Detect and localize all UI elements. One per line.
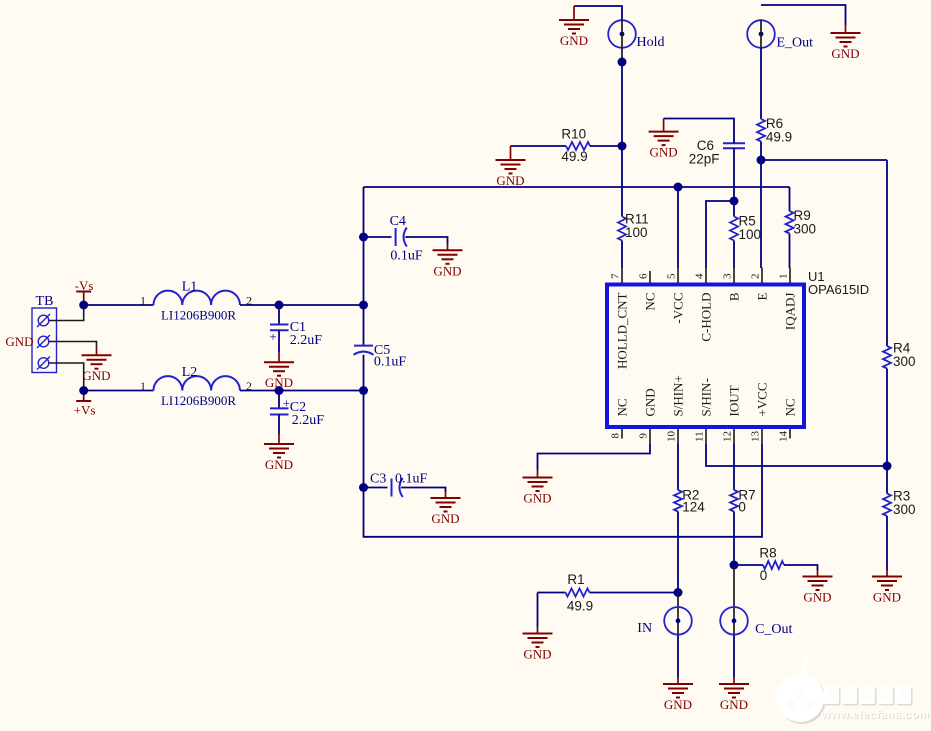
wire R1 ground stub <box>537 593 539 628</box>
pin 7 (HOLLD_CNT) <box>610 268 630 370</box>
ground (R10) <box>496 146 526 188</box>
ground (C_Out) <box>719 678 749 712</box>
wire HOLD_CNT down <box>621 62 623 217</box>
svg-text:49.9: 49.9 <box>567 599 593 614</box>
ground (R1) <box>523 627 553 662</box>
node C_Out junction <box>730 561 739 570</box>
ground (R8) <box>803 570 833 605</box>
wire R5 to pin3 <box>733 241 735 269</box>
svg-text:HOLLD_CNT: HOLLD_CNT <box>614 292 629 369</box>
svg-text:L1: L1 <box>182 280 198 295</box>
svg-text:GND: GND <box>664 697 692 712</box>
node C3 junction <box>359 483 368 492</box>
wire pin5 drop <box>677 187 679 268</box>
svg-text:10: 10 <box>666 431 678 443</box>
resistor R8 wire left <box>734 564 763 566</box>
node right rail junction <box>883 462 892 471</box>
svg-text:-VCC: -VCC <box>670 293 685 324</box>
svg-text:GND: GND <box>433 263 461 278</box>
svg-text:2.2uF: 2.2uF <box>292 413 325 428</box>
wire R6 to pin2 <box>760 142 762 269</box>
svg-text:NC: NC <box>642 293 657 311</box>
svg-text:0.1uF: 0.1uF <box>390 249 423 264</box>
connector E_Out <box>747 20 775 48</box>
svg-text:49.9: 49.9 <box>766 130 792 145</box>
node -VCC/pin5 <box>674 183 683 192</box>
wire R1 right <box>590 592 679 594</box>
svg-text:GND: GND <box>523 491 551 506</box>
wire C3 left <box>364 487 388 489</box>
svg-text:GND: GND <box>803 590 831 605</box>
svg-text:0.1uF: 0.1uF <box>395 472 428 487</box>
wire C2 top <box>278 391 280 409</box>
wire R9 to pin1 <box>789 234 791 269</box>
wire node to pin4 <box>706 201 734 268</box>
pin 8 (NC) <box>610 398 630 438</box>
resistor R9 body <box>786 211 794 234</box>
wire L1 to rail <box>240 304 364 306</box>
svg-text:GND: GND <box>873 590 901 605</box>
capacitor C5 <box>354 346 374 355</box>
svg-text:GND: GND <box>265 457 293 472</box>
wire E_Out-to-GND top <box>761 5 846 25</box>
wire E_Out vertical <box>760 20 762 48</box>
inductor L1 <box>154 291 240 305</box>
svg-text:GND: GND <box>82 368 110 383</box>
wire Hold-to-GND top <box>574 6 622 20</box>
svg-text:1: 1 <box>140 379 146 393</box>
wire to R9 <box>789 187 791 211</box>
svg-text:S/HIN+: S/HIN+ <box>670 375 685 416</box>
pin 2 (E) <box>750 268 770 301</box>
node +Vs junction <box>79 386 88 395</box>
svg-text:3: 3 <box>722 273 734 279</box>
connector C_Out <box>720 607 748 635</box>
wire C6 bottom <box>733 148 735 201</box>
wire L2 to rail <box>240 390 364 392</box>
wire left rail lower <box>364 355 763 537</box>
wire +Vs to L2 <box>84 390 154 392</box>
svg-text:GND: GND <box>496 173 524 188</box>
wire TB pin3 <box>49 363 84 391</box>
svg-text:22pF: 22pF <box>689 152 720 167</box>
inductor L2 <box>154 376 240 390</box>
wire pin12 to R7 <box>733 444 735 490</box>
node R10/Hold junction <box>618 142 627 151</box>
node -Vs junction <box>79 301 88 310</box>
power port -Vs <box>75 278 94 305</box>
svg-text:0: 0 <box>760 568 768 583</box>
wire R7 to C_Out node <box>733 512 735 566</box>
pin 3 (B) <box>722 268 742 302</box>
pin 5 (-VCC) <box>666 268 686 324</box>
connector IN <box>664 607 692 635</box>
svg-text:B: B <box>726 292 741 301</box>
svg-text:100: 100 <box>739 227 762 242</box>
svg-text:NC: NC <box>614 398 629 416</box>
svg-text:GND: GND <box>720 697 748 712</box>
svg-text:L2: L2 <box>182 365 198 380</box>
pin 14 (NC) <box>778 398 798 442</box>
svg-text:+Vs: +Vs <box>74 403 96 418</box>
wire C4 right <box>405 237 447 244</box>
svg-text:R8: R8 <box>759 546 776 561</box>
wire R4 to node <box>886 369 888 467</box>
wire node to R5 <box>733 201 735 217</box>
svg-text:9: 9 <box>638 433 650 439</box>
svg-text:12: 12 <box>722 431 734 442</box>
wire C6 top <box>664 119 734 144</box>
resistor R5 body <box>730 217 738 241</box>
svg-text:C4: C4 <box>390 214 406 229</box>
svg-text:TB: TB <box>36 294 54 309</box>
pin 1 (IQADJ) <box>778 268 798 331</box>
svg-text:GND: GND <box>5 334 33 349</box>
connector Hold <box>608 20 636 48</box>
pin 13 (+VCC) <box>750 382 770 444</box>
svg-text:C3: C3 <box>370 472 386 487</box>
ground (C4) <box>433 244 463 278</box>
svg-text:GND: GND <box>523 647 551 662</box>
svg-text:124: 124 <box>682 500 705 515</box>
ground (C2) <box>264 434 294 472</box>
wire pin10 to R2 <box>677 444 679 490</box>
svg-text:NC: NC <box>782 398 797 416</box>
svg-text:Hold: Hold <box>637 35 665 50</box>
node C2 junction <box>275 386 284 395</box>
wire left rail upper <box>363 187 365 346</box>
svg-text:GND: GND <box>431 511 459 526</box>
svg-text:0: 0 <box>738 500 746 515</box>
wire Hold vertical <box>621 20 623 62</box>
svg-text:300: 300 <box>893 354 916 369</box>
svg-text:-Vs: -Vs <box>75 278 94 293</box>
resistor R2 body <box>674 490 682 512</box>
wire R3 to ground <box>886 516 888 570</box>
node E junction <box>757 156 766 165</box>
svg-text:13: 13 <box>750 431 762 443</box>
svg-text:300: 300 <box>893 502 916 517</box>
node L2 junction <box>359 386 368 395</box>
svg-text:11: 11 <box>694 431 706 442</box>
svg-text:www.elecfans.com: www.elecfans.com <box>821 709 930 721</box>
wire C1 top <box>278 305 280 325</box>
ground (C3) <box>431 492 461 526</box>
wire R11 to pin7 <box>621 241 623 269</box>
pin 10 (S/HIN+) <box>666 375 686 444</box>
resistor R3 body <box>883 494 891 517</box>
ground (E_Out) <box>831 25 861 61</box>
power port +Vs <box>74 391 96 418</box>
svg-text:R1: R1 <box>567 572 584 587</box>
capacitor C2 <box>270 408 289 414</box>
svg-text:GND: GND <box>831 46 859 61</box>
svg-text:C-HOLD: C-HOLD <box>698 293 713 342</box>
pin 9 (GND) <box>638 388 658 444</box>
pin 11 (S/HIN-) <box>694 378 714 444</box>
wire C1 bottom <box>278 330 280 352</box>
node C-HOLD junction <box>730 197 739 206</box>
wire -Vs to L1 <box>84 304 154 306</box>
wire TB pin2 <box>49 342 97 349</box>
ground (R3) <box>872 570 902 605</box>
svg-text:LI1206B900R: LI1206B900R <box>161 393 236 408</box>
svg-text:1: 1 <box>778 274 790 280</box>
wire E to right rail <box>761 159 887 161</box>
svg-text:IOUT: IOUT <box>726 385 741 416</box>
wire -VCC bus <box>364 186 790 188</box>
node Hold junction <box>618 58 627 67</box>
svg-text:LI1206B900R: LI1206B900R <box>161 308 236 323</box>
wire pin9 to ground <box>538 444 651 470</box>
svg-text:GND: GND <box>642 388 657 416</box>
wire IN to ground <box>677 635 679 678</box>
wire pin11 to right rail <box>706 444 887 466</box>
svg-text:2: 2 <box>750 274 762 280</box>
node IN junction <box>674 588 683 597</box>
pin 4 (C-HOLD) <box>694 268 714 342</box>
node L1 junction <box>359 301 368 310</box>
capacitor C6 <box>723 143 745 148</box>
svg-text:7: 7 <box>610 273 622 279</box>
resistor R6 body <box>757 119 765 142</box>
svg-text:R10: R10 <box>561 127 586 142</box>
capacitor C4 <box>396 228 407 247</box>
resistor R4 body <box>883 346 891 369</box>
resistor R1 body <box>566 589 590 597</box>
capacitor C1 <box>270 325 289 331</box>
pin 12 (IOUT) <box>722 385 742 444</box>
pin 6 (NC) <box>638 271 658 311</box>
svg-text:14: 14 <box>778 431 790 443</box>
wire C3 right <box>401 488 445 493</box>
svg-text:300: 300 <box>794 222 817 237</box>
resistor R7 body <box>730 490 738 512</box>
watermark logo <box>776 652 826 724</box>
wire C_Out to ground <box>733 635 735 678</box>
svg-text:+VCC: +VCC <box>754 382 769 416</box>
op-amp U1 OPA615ID body <box>607 285 804 428</box>
svg-text:C_Out: C_Out <box>755 622 792 637</box>
terminal block TB <box>32 308 57 373</box>
wire C4 left <box>364 236 392 238</box>
svg-text:OPA615ID: OPA615ID <box>808 282 869 297</box>
svg-text:E_Out: E_Out <box>777 36 814 51</box>
svg-text:S/HIN-: S/HIN- <box>698 378 713 416</box>
svg-text:2.2uF: 2.2uF <box>290 333 323 348</box>
wire C_Out drop <box>733 565 735 635</box>
svg-text:1: 1 <box>140 294 146 308</box>
svg-text:0.1uF: 0.1uF <box>374 355 407 370</box>
resistor R8 body <box>763 561 784 569</box>
ground (TB) <box>82 348 112 383</box>
svg-text:4: 4 <box>694 273 706 279</box>
ground (pin9) <box>523 470 553 506</box>
wire R2 to IN node <box>677 512 679 593</box>
resistor R10 body <box>566 142 590 150</box>
svg-text:IN: IN <box>637 621 652 636</box>
watermark text <box>821 687 931 723</box>
capacitor C3 <box>392 478 403 497</box>
svg-text:IQADJ: IQADJ <box>782 293 797 331</box>
wire node to R3 <box>886 466 888 494</box>
node C1 junction <box>275 301 284 310</box>
wire TB pin1 <box>49 305 84 321</box>
wire R1 left <box>538 592 566 594</box>
svg-text:GND: GND <box>560 33 588 48</box>
svg-text:6: 6 <box>638 273 650 279</box>
wire C2 bottom <box>278 415 280 435</box>
svg-text:+: + <box>269 329 276 344</box>
resistor R11 body <box>618 217 626 241</box>
ground (C6) <box>649 119 679 160</box>
svg-text:E: E <box>754 292 769 300</box>
ground (IN) <box>663 678 693 712</box>
svg-text:100: 100 <box>625 225 648 240</box>
node C4 junction <box>359 233 368 242</box>
wire IN drop <box>677 593 679 636</box>
ground (C1) <box>264 352 294 390</box>
svg-text:GND: GND <box>650 145 678 160</box>
wire right rail upper <box>886 160 888 346</box>
wire R10 left <box>511 145 567 147</box>
svg-text:8: 8 <box>610 433 622 439</box>
svg-text:5: 5 <box>666 273 678 279</box>
ground (Hold) <box>559 6 589 48</box>
wire R10 right <box>590 145 622 147</box>
svg-text:49.9: 49.9 <box>561 149 587 164</box>
wire R8 right <box>784 565 818 570</box>
